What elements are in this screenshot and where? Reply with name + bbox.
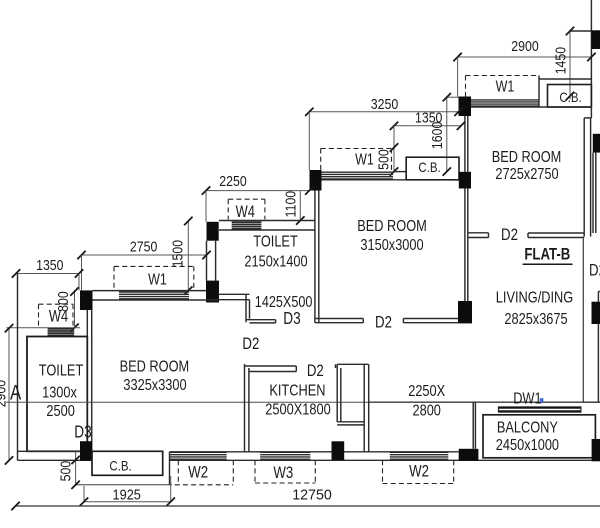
svg-text:2900: 2900 <box>511 38 538 54</box>
svg-text:D2: D2 <box>242 335 259 354</box>
svg-text:D2: D2 <box>501 226 518 245</box>
svg-text:500: 500 <box>375 149 391 170</box>
svg-text:3250: 3250 <box>371 96 398 112</box>
svg-text:1925: 1925 <box>113 485 142 502</box>
svg-text:W1: W1 <box>148 271 167 289</box>
svg-text:2150x1400: 2150x1400 <box>244 253 307 271</box>
svg-text:3150x3000: 3150x3000 <box>360 237 423 255</box>
svg-text:1100: 1100 <box>282 191 298 217</box>
svg-text:W4: W4 <box>49 308 68 326</box>
svg-text:BED ROOM: BED ROOM <box>120 358 190 376</box>
svg-text:W1: W1 <box>355 151 374 169</box>
svg-text:LIVING/DING: LIVING/DING <box>496 289 573 307</box>
svg-text:BED ROOM: BED ROOM <box>357 218 427 236</box>
svg-text:2500: 2500 <box>46 403 74 421</box>
svg-text:2825x3675: 2825x3675 <box>504 311 567 329</box>
svg-text:500: 500 <box>57 461 73 482</box>
svg-text:W2: W2 <box>188 463 208 482</box>
svg-text:2250: 2250 <box>219 173 246 189</box>
svg-text:C.B.: C.B. <box>559 89 581 105</box>
svg-text:2250X: 2250X <box>408 383 445 401</box>
svg-text:2900: 2900 <box>0 380 9 407</box>
svg-text:DW1: DW1 <box>513 390 541 408</box>
svg-text:TOILET: TOILET <box>39 362 84 380</box>
svg-text:KITCHEN: KITCHEN <box>269 382 325 400</box>
svg-text:W3: W3 <box>273 464 293 483</box>
svg-text:W2: W2 <box>409 462 429 481</box>
svg-text:D2: D2 <box>375 313 392 332</box>
svg-text:2500X1800: 2500X1800 <box>265 401 330 419</box>
svg-text:D2: D2 <box>307 362 324 381</box>
svg-text:2800: 2800 <box>412 402 440 420</box>
svg-text:1600: 1600 <box>429 122 445 149</box>
svg-text:3325x3300: 3325x3300 <box>123 377 186 395</box>
svg-text:BED ROOM: BED ROOM <box>492 149 562 167</box>
svg-text:W4: W4 <box>236 204 255 222</box>
svg-text:C.B.: C.B. <box>109 457 131 473</box>
svg-text:TOILET: TOILET <box>253 233 298 251</box>
svg-text:D2: D2 <box>589 261 600 280</box>
svg-text:1500: 1500 <box>169 240 185 267</box>
svg-text:1350: 1350 <box>36 257 63 273</box>
svg-text:W1: W1 <box>496 78 515 96</box>
svg-text:FLAT-B: FLAT-B <box>524 245 570 264</box>
svg-text:C.B.: C.B. <box>418 159 440 175</box>
svg-text:2725x2750: 2725x2750 <box>495 166 558 184</box>
svg-text:D3: D3 <box>283 310 301 329</box>
svg-text:2450x1000: 2450x1000 <box>496 437 559 455</box>
svg-text:BALCONY: BALCONY <box>497 419 558 437</box>
svg-text:2750: 2750 <box>130 239 157 255</box>
svg-text:1450: 1450 <box>552 47 568 74</box>
svg-text:12750: 12750 <box>292 487 332 503</box>
svg-text:D3: D3 <box>74 423 92 442</box>
svg-text:1300x: 1300x <box>42 384 78 402</box>
